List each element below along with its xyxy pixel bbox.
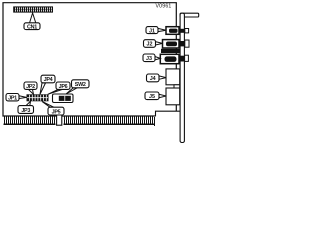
svg-text:JP5: JP5 <box>52 109 61 115</box>
svg-text:JP3: JP3 <box>21 108 30 114</box>
edge connector section 1 <box>4 117 56 126</box>
bracket strip <box>180 13 184 142</box>
label J3 <box>143 54 160 62</box>
svg-text:J4: J4 <box>150 76 156 82</box>
svg-text:JP4: JP4 <box>44 77 53 83</box>
svg-text:JP1: JP1 <box>8 95 17 101</box>
connector J2 <box>163 40 190 48</box>
label J5 <box>145 92 166 100</box>
label JP3 <box>18 101 34 114</box>
label JP2 <box>24 82 37 94</box>
label JP6 <box>48 82 70 94</box>
connector J1 <box>166 27 189 35</box>
card outline <box>3 3 176 116</box>
svg-text:J3: J3 <box>146 56 152 62</box>
edge connector section 2 <box>64 117 156 127</box>
connector J4 <box>166 69 180 85</box>
bridge between J4 and J5 <box>174 85 180 88</box>
label JP1 <box>6 94 27 102</box>
svg-text:J5: J5 <box>149 94 155 100</box>
connector block under J2 <box>161 49 180 53</box>
edge connector key tab <box>57 115 62 126</box>
svg-text:J1: J1 <box>149 28 155 34</box>
connector CN1 <box>13 6 53 12</box>
card bottom-right step <box>156 111 180 116</box>
svg-text:SW2: SW2 <box>75 82 86 88</box>
label J4 <box>147 74 167 82</box>
connector J5 <box>166 88 180 105</box>
svg-text:JP6: JP6 <box>59 84 68 90</box>
label JP4 <box>40 75 55 94</box>
svg-text:JP2: JP2 <box>26 84 35 90</box>
label SW2 <box>66 80 89 94</box>
svg-text:V0961: V0961 <box>155 4 171 10</box>
label J2 <box>144 40 163 48</box>
bracket flange <box>180 13 199 17</box>
label JP5 <box>42 102 64 116</box>
jumper header block <box>27 94 49 101</box>
switch SW2 component <box>53 94 74 103</box>
connector J3 <box>160 54 188 63</box>
label box CN1 <box>24 23 40 30</box>
svg-text:CN1: CN1 <box>27 24 37 30</box>
callout pointer CN1 <box>30 13 36 23</box>
label J1 <box>146 27 166 35</box>
svg-text:J2: J2 <box>147 42 153 48</box>
